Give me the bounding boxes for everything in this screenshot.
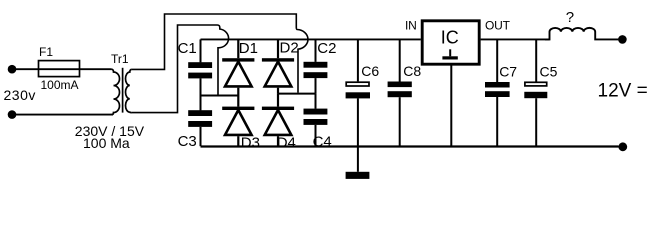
svg-text:C8: C8 [403, 63, 421, 79]
terminal output top [618, 35, 627, 44]
capacitor C1 [188, 39, 212, 95]
capacitor C8 [388, 39, 412, 146]
svg-text:230v: 230v [4, 87, 36, 103]
op-amp U1 regulator IC box [422, 21, 479, 64]
svg-text:IN: IN [405, 18, 417, 32]
svg-text:D3: D3 [241, 134, 260, 151]
svg-text:C3: C3 [178, 133, 197, 150]
inductor L1 [545, 28, 618, 40]
ground [346, 146, 370, 179]
capacitor C5 (electrolytic) [524, 39, 547, 146]
svg-text:100 Ma: 100 Ma [83, 135, 130, 151]
capacitor C7 [485, 39, 510, 146]
wire secondary top to hop over bus (AC input 2) [132, 14, 308, 93]
diode D4 [262, 94, 294, 147]
primary winding [112, 69, 120, 114]
svg-text:C2: C2 [317, 40, 336, 57]
top bus (bridge + to IC IN) [201, 38, 421, 40]
capacitor C3 [188, 96, 212, 147]
IC internal ground pin symbol [442, 49, 457, 59]
mid row right (AC node 2) [278, 93, 316, 95]
terminal input top [8, 65, 17, 74]
svg-text:100mA: 100mA [41, 78, 79, 92]
svg-text:D2: D2 [280, 39, 299, 56]
svg-text:D1: D1 [239, 40, 258, 57]
svg-text:C4: C4 [313, 134, 332, 151]
fuse F1 [39, 61, 80, 77]
mid row left (AC node 1) [201, 95, 239, 97]
secondary winding [126, 69, 132, 112]
wire secondary bottom to hop over bus (AC input 1) [132, 25, 229, 113]
svg-text:12V =: 12V = [598, 80, 648, 101]
diode D3 [222, 96, 254, 147]
wire IC ground pin to rail [450, 65, 452, 147]
wire IC OUT rail [481, 38, 550, 40]
svg-text:C5: C5 [540, 63, 558, 79]
diode D2 [262, 39, 294, 93]
svg-text:?: ? [566, 9, 574, 26]
core [122, 68, 124, 113]
wire input top [12, 68, 112, 70]
wire input bottom [12, 114, 113, 116]
svg-text:C6: C6 [361, 63, 379, 79]
svg-text:F1: F1 [39, 45, 53, 59]
diode D1 [222, 39, 254, 95]
transformer Tr1 [112, 68, 132, 115]
terminal input bottom [8, 110, 17, 119]
svg-text:C7: C7 [499, 63, 517, 79]
capacitor C2 [304, 39, 328, 93]
capacitor C6 (electrolytic) [346, 39, 370, 146]
svg-text:IC: IC [441, 28, 459, 48]
bottom rail [201, 145, 619, 147]
svg-text:OUT: OUT [485, 18, 511, 32]
svg-text:Tr1: Tr1 [111, 52, 129, 66]
svg-text:D4: D4 [277, 134, 296, 151]
terminal output bottom [618, 142, 627, 151]
capacitor C4 [304, 94, 328, 147]
svg-text:C1: C1 [178, 40, 197, 57]
